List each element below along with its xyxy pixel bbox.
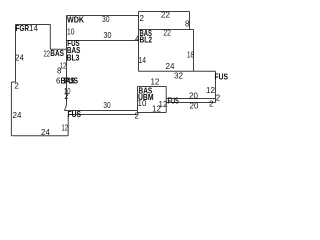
wire center inner vertical — [138, 12, 140, 72]
svg-text:FUS: FUS — [64, 76, 78, 86]
svg-text:2: 2 — [209, 100, 214, 109]
wire porch bottom line — [166, 102, 216, 104]
wire bottom edge — [11, 135, 68, 137]
svg-text:18: 18 — [187, 51, 194, 60]
wire lower-left edge — [10, 82, 12, 136]
svg-text:32: 32 — [174, 72, 183, 81]
wire UBM right edge — [165, 87, 167, 113]
wire BAS connector — [50, 48, 66, 50]
svg-text:12: 12 — [206, 86, 215, 95]
wire top box right edge — [189, 12, 191, 30]
wire FGR right edge — [49, 25, 51, 50]
svg-text:22: 22 — [161, 11, 170, 20]
svg-text:24: 24 — [13, 111, 22, 120]
wire center left edge — [66, 16, 68, 106]
svg-text:10: 10 — [138, 99, 147, 108]
svg-text:24: 24 — [15, 54, 24, 63]
svg-text:8: 8 — [57, 67, 62, 76]
svg-text:14: 14 — [139, 56, 147, 65]
svg-text:2: 2 — [216, 93, 221, 102]
svg-text:10: 10 — [67, 28, 75, 37]
wire UBM left edge — [137, 87, 139, 113]
svg-text:BL3: BL3 — [67, 53, 80, 63]
wire porch top line — [166, 98, 216, 100]
svg-text:2: 2 — [140, 14, 145, 23]
svg-text:20: 20 — [190, 102, 199, 111]
wire main top edge — [139, 29, 194, 31]
wire right porch edge — [215, 71, 217, 102]
svg-text:FUS: FUS — [68, 109, 82, 119]
wire FGR left edge — [15, 25, 17, 83]
svg-text:FGR: FGR — [16, 23, 30, 33]
wire mid horizontal — [139, 70, 216, 72]
wire main right edge — [193, 30, 195, 72]
wire left jog — [11, 81, 15, 83]
svg-text:24: 24 — [166, 62, 175, 71]
svg-text:BAS: BAS — [50, 48, 64, 58]
wire left diagonal jog — [65, 105, 67, 111]
wire lower inner line — [65, 110, 138, 112]
wire FGR top edge — [16, 24, 51, 26]
svg-text:2: 2 — [64, 92, 69, 101]
svg-text:14: 14 — [29, 24, 38, 33]
svg-text:30: 30 — [103, 101, 111, 110]
wire top box top edge — [139, 11, 190, 13]
svg-text:24: 24 — [41, 128, 50, 137]
svg-text:20: 20 — [189, 92, 198, 101]
svg-text:22: 22 — [163, 28, 171, 37]
svg-text:2: 2 — [135, 112, 140, 121]
svg-text:WDK: WDK — [67, 15, 85, 25]
svg-text:4: 4 — [135, 35, 140, 44]
wire WDK top edge — [67, 15, 139, 17]
svg-text:12: 12 — [62, 123, 69, 132]
svg-text:FUS: FUS — [215, 72, 229, 82]
svg-text:30: 30 — [104, 31, 112, 40]
svg-text:2: 2 — [14, 81, 19, 90]
wire lower bottom line — [69, 114, 138, 116]
svg-text:8: 8 — [185, 20, 190, 29]
svg-text:30: 30 — [102, 15, 110, 24]
svg-text:BL2: BL2 — [140, 35, 153, 45]
wire UBM top edge — [138, 86, 167, 88]
svg-text:FUS: FUS — [168, 96, 180, 106]
wire UBM bottom edge — [138, 112, 167, 114]
svg-text:12: 12 — [152, 105, 161, 114]
wire lower right edge up — [67, 115, 69, 136]
wire WDK bottom edge — [67, 40, 139, 42]
